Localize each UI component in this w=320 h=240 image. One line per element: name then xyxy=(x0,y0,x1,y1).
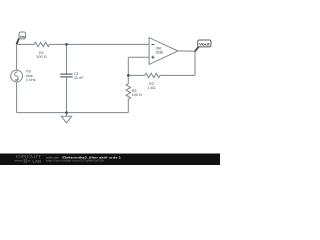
watermark bar xyxy=(0,154,220,166)
node flag Vin xyxy=(17,32,26,44)
resistor R1 xyxy=(34,42,49,46)
junction node B xyxy=(127,74,130,77)
wire xyxy=(160,74,195,76)
wire xyxy=(17,43,35,45)
svg-text:http://circuitlab.com/c/7gf9h0: http://circuitlab.com/c/7gf9h0a23b xyxy=(46,159,105,163)
wire xyxy=(66,77,68,113)
wire xyxy=(66,44,68,74)
voltage source VS xyxy=(11,70,23,82)
watermark text xyxy=(46,155,121,162)
junction node A xyxy=(65,43,68,46)
op-amp OA1 xyxy=(149,38,178,65)
svg-text:10 nF: 10 nF xyxy=(74,76,84,80)
svg-text:Vin: Vin xyxy=(20,35,25,39)
CircuitLab logo xyxy=(15,154,42,163)
wire xyxy=(178,51,195,76)
junction node C xyxy=(65,111,68,114)
capacitor C1 xyxy=(60,74,72,77)
wire xyxy=(128,74,145,76)
svg-text:LAB: LAB xyxy=(32,158,41,163)
wire xyxy=(128,56,149,58)
node flag Vout xyxy=(195,40,211,51)
svg-text:Vout: Vout xyxy=(199,43,211,47)
wire xyxy=(50,43,150,45)
svg-text:1 kΩ: 1 kΩ xyxy=(147,86,155,90)
resistor R2 xyxy=(145,73,160,77)
svg-text:1 kHz: 1 kHz xyxy=(26,78,36,82)
wire xyxy=(127,57,129,75)
svg-text:100 Ω: 100 Ω xyxy=(36,55,46,59)
svg-text:TL081: TL081 xyxy=(155,51,163,55)
wire xyxy=(16,82,18,113)
wire xyxy=(17,112,129,114)
svg-text:100 Ω: 100 Ω xyxy=(132,93,142,97)
wire xyxy=(16,44,18,70)
ground xyxy=(61,113,71,123)
resistor R3 xyxy=(126,75,130,112)
